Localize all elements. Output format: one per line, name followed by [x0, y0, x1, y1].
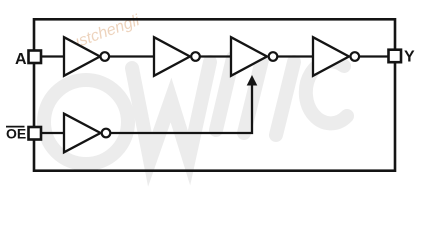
inverter U1: [64, 37, 109, 76]
wire inverter3 to inverter4: [278, 55, 315, 57]
inverter U4: [313, 37, 359, 76]
arrowhead into inverter 3: [247, 75, 258, 86]
svg-text:OE: OE: [6, 126, 26, 142]
wire OE to inverter 5: [42, 132, 66, 134]
terminal A: [29, 51, 42, 64]
wire inverter5 output to corner: [111, 84, 252, 133]
wire inverter2 to inverter3: [200, 55, 233, 57]
svg-text:A: A: [15, 51, 27, 68]
terminal OE: [29, 127, 42, 140]
wire inverter4 to Y: [360, 55, 389, 57]
svg-text:Y: Y: [404, 49, 415, 66]
watermark large gray letters: [44, 58, 347, 164]
inverter U3 (tri-state controlled): [231, 37, 277, 76]
inverter U5 (OE path): [64, 114, 110, 153]
watermark small orange text: [68, 12, 142, 53]
inverter U2: [154, 37, 200, 76]
outer box: [34, 19, 395, 170]
wire A to inverter 1: [41, 55, 66, 57]
label OE with overline: [6, 126, 26, 142]
wire inverter1 to inverter2: [109, 55, 156, 57]
terminal Y: [389, 50, 402, 63]
